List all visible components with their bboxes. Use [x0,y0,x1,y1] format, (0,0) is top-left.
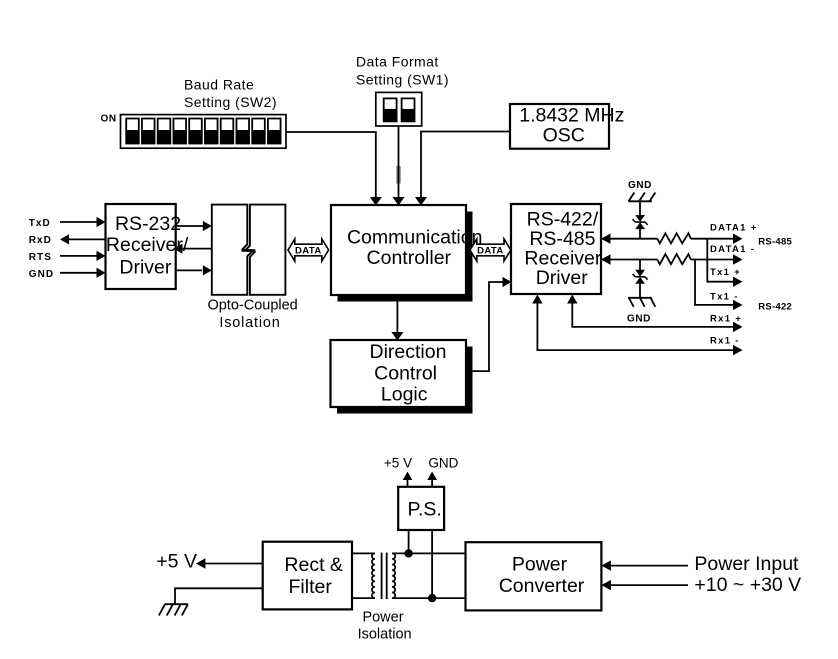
svg-text:Isolation: Isolation [358,626,412,642]
communication controller block [331,205,466,295]
svg-text:GND: GND [628,180,652,191]
wire: P.S. +5V to transformer top [408,530,410,553]
svg-text:+5 V: +5 V [156,550,197,572]
direction control logic shadow [337,347,473,414]
svg-text:Power Input: Power Input [694,553,799,575]
svg-text:+10 ~ +30 V: +10 ~ +30 V [694,574,801,596]
wire: DATA1+ junction to Tx1+ [707,239,742,287]
transformer T1 primary wires [352,553,375,598]
svg-text:Rect &: Rect & [284,554,343,576]
svg-text:Setting (SW2): Setting (SW2) [184,94,277,110]
svg-text:Tx1 +: Tx1 + [710,267,741,278]
wire: DATA1- junction to Tx1- [695,260,743,311]
oscillator: 1.8432 MHz OSC [510,104,624,149]
svg-text:Power: Power [512,553,568,575]
transformer T1 left winding [372,553,375,598]
transformer T1 core [382,553,387,599]
TVS diode D2 [633,270,648,284]
svg-text:DATA: DATA [295,245,322,256]
wire Rx1+ (driver bottom to terminal) [567,295,742,333]
wire: SW1 to communication controller [393,126,405,206]
svg-text:Filter: Filter [289,576,333,598]
label: Opto-Coupled Isolation [207,298,297,331]
wire: TVS D2 to bottom ground [639,283,641,297]
ground GND (bottom right) [627,298,655,325]
wire: P.S. +5V up [403,472,413,487]
wire: OSC to communication controller [415,132,510,206]
DIP switch SW1 [376,92,422,126]
svg-text:ON: ON [101,113,117,124]
wire DATA1+ line [601,234,743,244]
wire: controller to direction control logic [391,302,403,341]
svg-text:DATA1 -: DATA1 - [710,244,755,255]
wire: power input line 2 [601,580,688,590]
svg-text:Logic: Logic [381,384,428,406]
wire RTS input [60,251,106,261]
wire: P.S. GND to transformer bottom [431,530,433,598]
svg-text:RS-232: RS-232 [115,213,181,235]
svg-text:Rx1 -: Rx1 - [710,335,740,346]
svg-text:Power: Power [362,610,403,626]
svg-text:Baud Rate: Baud Rate [184,77,254,93]
communication controller labels [347,226,482,269]
resistor R1 (DATA1+) [657,233,691,243]
RS-422/RS-485 Receiver Driver block [511,204,602,294]
wire DATA1- line [601,254,743,264]
svg-text:RxD: RxD [29,235,52,246]
Rect & Filter block [263,542,352,610]
svg-text:Converter: Converter [499,575,585,597]
svg-text:Driver: Driver [536,267,589,289]
bus arrow DATA (controller to RS-422/485) [470,239,511,261]
svg-text:Driver: Driver [119,257,172,279]
wire: P.S. GND up [427,472,437,487]
svg-text:Setting (SW1): Setting (SW1) [356,71,449,87]
svg-text:TxD: TxD [29,218,51,229]
wire Rx1- (driver bottom to terminal) [532,295,742,356]
wire TxD input [60,217,106,227]
junction dot (transformer top wire) [404,549,412,557]
svg-text:RS-422: RS-422 [758,302,792,313]
transformer T1 right winding [392,553,395,598]
wire: DATA1- to TVS D2 [639,260,641,271]
wire: top ground to TVS D1 [639,201,641,216]
svg-text:GND: GND [428,456,458,471]
label: Power Isolation [358,610,412,643]
wire GND input [60,268,106,278]
wire: RS-232 to opto (top) [176,221,212,231]
power supply block P.S. [398,487,444,530]
wire: TVS D1 to DATA1+ [639,229,641,239]
svg-text:Rx1 +: Rx1 + [710,313,742,324]
wire: rect & filter to +5V output [196,558,263,568]
label: Baud Rate Setting (SW2) [184,77,277,111]
wire: direction control logic to RS-422/485 driver [466,277,512,371]
svg-text:RTS: RTS [29,252,52,263]
wire: RS-232 to opto (bottom) [176,265,212,275]
svg-text:Control: Control [374,363,437,385]
svg-text:DATA1 +: DATA1 + [710,222,758,233]
svg-text:OSC: OSC [543,124,585,146]
svg-text:Tx1 -: Tx1 - [710,292,739,303]
svg-text:P.S.: P.S. [408,498,442,520]
ground (isolated output) [159,588,263,615]
wire: opto to RS-232 (middle) [174,244,212,254]
bus arrow DATA (opto to controller) [288,239,329,261]
RS-232 Receiver/Driver block [106,204,189,289]
wire: power input line 1 [601,560,688,570]
svg-text:1.8432 MHz: 1.8432 MHz [519,104,624,126]
ground GND (top right) [628,180,655,201]
DIP switch SW2 (10 positions) [121,115,287,149]
wire RxD output [60,234,106,244]
direction control logic block [331,340,467,407]
transformer T1 secondary wires [392,553,465,598]
Power Converter block [466,542,602,610]
junction dot (transformer bottom wire) [428,594,436,602]
svg-text:+5 V: +5 V [384,456,412,471]
resistor R2 (DATA1-) [657,254,691,264]
svg-text:Opto-Coupled: Opto-Coupled [207,298,297,314]
svg-text:Isolation: Isolation [219,315,280,331]
label: Data Format Setting (SW1) [356,54,449,88]
opto-coupler isolation module [212,205,286,295]
svg-text:GND: GND [627,314,651,325]
svg-text:Data Format: Data Format [356,54,439,70]
wire: SW2 to communication controller [286,132,382,206]
communication controller shadow [338,212,473,302]
svg-text:RS-485: RS-485 [758,237,792,248]
TVS diode D1 [633,215,648,229]
svg-text:Direction: Direction [370,341,447,363]
svg-text:GND: GND [29,269,55,280]
svg-text:Controller: Controller [367,247,452,269]
svg-text:Receiver/: Receiver/ [106,234,189,256]
svg-text:Communication: Communication [347,226,482,248]
